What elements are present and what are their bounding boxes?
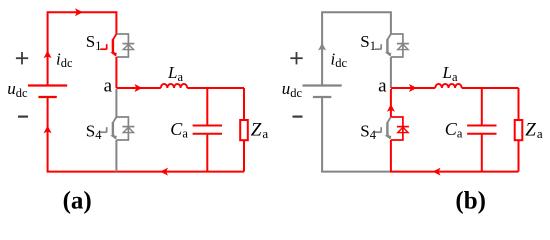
current arrow on top bus (a) [75,8,83,16]
wire: bottom bus (inactive left part) [321,171,390,173]
svg-text:Za: Za [251,120,269,142]
wire: source negative lead down to bottom bus [321,97,323,172]
svg-text:Ca: Ca [445,119,463,141]
wire: bottom return bus (active) [390,171,519,173]
svg-text:La: La [167,63,183,84]
current arrow on return lead (a) [44,126,52,134]
wire: S4 emitter to bottom bus [390,140,392,172]
wire: inductor to load branch [187,87,244,89]
svg-text:udc: udc [7,79,28,100]
current arrow toward node a (b) [387,104,395,112]
source u_dc (a) (dc source) [28,86,67,98]
svg-text:(a): (a) [63,188,92,215]
wire: capacitor top lead [206,88,208,125]
svg-text:La: La [442,63,458,84]
current arrow on bottom bus (a) [160,168,168,176]
wire: S1 emitter to node a [390,57,392,88]
wire: S4 emitter to bottom bus [115,140,117,172]
diode of S4 (a) (antiparallel diode) [116,117,134,140]
svg-text:a: a [104,76,113,97]
capacitor C_a (a) [193,126,222,134]
switch S1 (a) (IGBT) [100,34,116,56]
svg-text:S1: S1 [360,32,376,53]
capacitor C_a (b) [467,126,496,134]
switch S4 (b) (IGBT) [375,117,391,139]
wire: load top lead [518,88,520,120]
svg-text:S4: S4 [360,121,376,142]
svg-text:(b): (b) [455,188,486,215]
wire: node a down to S4 collector [390,89,392,117]
svg-text:idc: idc [331,50,348,71]
current arrow after node a (a) [135,84,143,92]
inductor L_a (a) [161,84,187,88]
wire: source negative lead down to bottom bus [47,97,49,172]
current arrow on bottom bus (b) [433,168,441,176]
wire: node a to inductor [116,87,160,89]
svg-text:idc: idc [56,50,73,71]
svg-text:udc: udc [282,79,303,100]
diode of S1 (a) (antiparallel diode) [116,34,134,57]
wire: source positive lead, top bus, down to S1 collector [48,12,117,85]
polarity mark - [18,115,28,117]
polarity mark + [290,52,302,64]
wire: load top lead [243,88,245,120]
current arrow after node a (b) [409,84,417,92]
source u_dc (b) (dc source) [303,86,342,98]
inductor L_a (b) [435,84,461,88]
switch S1 (b) (IGBT) [375,34,391,56]
wire: capacitor bottom lead [481,135,483,172]
wire: inductor to load branch [462,87,519,89]
svg-text:S4: S4 [86,121,102,142]
wire: node a down to S4 collector [115,89,117,117]
polarity mark - [293,115,303,117]
svg-text:Ca: Ca [170,119,188,141]
wire: capacitor top lead [481,88,483,125]
polarity mark + [16,52,28,64]
wire: bottom return bus [47,171,244,173]
wire: S1 emitter to node a [115,57,117,88]
load Z_a (a) [240,120,248,140]
wire: source positive lead, top bus, down to S1 collector [322,12,391,85]
svg-text:S1: S1 [86,32,102,53]
load Z_a (b) [515,120,523,140]
svg-text:Za: Za [525,120,543,142]
current arrow i_dc (a) [44,50,52,58]
wire: load bottom lead [518,140,520,171]
svg-text:a: a [378,76,387,97]
diode of S4 (b) (antiparallel diode) [391,117,409,140]
wire: node a to inductor [391,87,435,89]
wire: load bottom lead [243,140,245,171]
diode of S1 (b) (antiparallel diode) [391,34,409,57]
current arrow i_dc (b) [318,43,326,51]
switch S4 (a) (IGBT) [100,117,116,139]
wire: capacitor bottom lead [206,135,208,172]
